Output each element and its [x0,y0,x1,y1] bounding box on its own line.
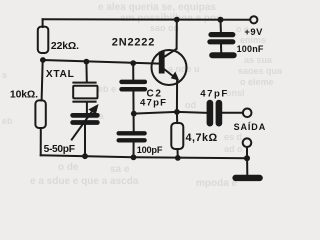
svg-text:a nde u: a nde u [168,64,200,74]
transistor Q1 2N2222 [152,49,187,85]
wire: trimmer bottom lead to ground rail [84,125,86,156]
svg-text:22kΩ.: 22kΩ. [51,41,79,52]
wire: +V top rail [43,18,251,21]
capacitor 100pF [117,131,147,142]
wire: rail to chassis ground [246,158,248,175]
svg-text:eb: eb [2,116,13,126]
svg-text:e a sdue e que a ascda: e a sdue e que a ascda [30,176,139,187]
wire: emitter lead down from transistor [176,80,178,112]
svg-text:100nF: 100nF [237,44,264,54]
capacitor 100nF (decoupling, to chassis) [207,32,235,44]
faint page bleed-through texture (decorative) [2,2,283,189]
wire: SAIDA ground terminal lead down to rail [246,147,248,158]
svg-text:5-50pF: 5-50pF [44,144,75,155]
wire: 47pF output cap to SAIDA terminal [222,112,243,114]
wire: crystal to trimmer [86,103,88,113]
chassis ground bar bottom right [232,175,262,181]
wire: 100pF bottom lead to ground rail [133,142,135,157]
crystal XTAL [72,82,97,103]
svg-text:2N2222: 2N2222 [112,36,155,48]
svg-text:100pF: 100pF [137,145,163,155]
svg-text:o de: o de [58,162,79,173]
wire: 4.7k bottom lead to ground rail [177,149,179,158]
terminal SAIDA (output) [243,109,252,118]
svg-text:as sua: as sua [244,55,273,65]
wire: crystal top lead [85,62,87,82]
svg-text:ad o: ad o [224,144,243,154]
terminal SAIDA ground side [243,138,252,147]
wire: C2 bottom to 100pF top (emitter node) [132,91,134,131]
svg-text:es d: es d [224,132,242,142]
capacitor 47pF (output coupling) [207,100,223,127]
junction node: ground rail / 100pF [131,154,137,160]
junction node: base rail / crystal [84,59,90,65]
junction node: top rail / collector [174,17,180,23]
wire: 100nF top lead from rail junction [220,20,222,32]
resistor 22k [38,27,49,53]
wire: 10k bottom lead down to ground rail [40,128,42,155]
junction node: C2-100pF emitter branch [131,111,137,117]
chassis ground bar under 100nF [209,52,237,58]
svg-text:sao on: sao on [150,23,179,33]
svg-text:SAÍDA: SAÍDA [234,122,267,132]
svg-text:+9V: +9V [244,26,263,37]
wire: base rail from 22k junction to transistor base [43,60,159,64]
svg-text:o eleme: o eleme [240,77,274,87]
wire: left column between 22k junction and 10k top [42,60,43,100]
svg-text:eb e: eb e [98,84,116,94]
svg-text:47pF: 47pF [140,98,167,109]
resistor 4.7k [171,123,183,149]
svg-text:e alea queria se, equipas: e alea queria se, equipas [98,2,216,13]
svg-text:XTAL: XTAL [46,69,75,80]
junction node: emitter column [174,109,180,115]
wire: 100nF bottom plate to ground bar [220,44,222,52]
resistor 10k [35,100,45,128]
junction node: top rail / 100nF [218,17,224,23]
trimmer capacitor 5-50pF [70,113,99,125]
junction node: base rail / 22k-10k [40,57,46,63]
junction node: ground rail / SAIDA ground [244,155,250,161]
svg-text:saoes qua: saoes qua [238,66,283,76]
svg-text:sa e: sa e [110,164,130,175]
wire: C2 top lead from base rail [132,63,134,80]
wire: emitter node branch C2/100pF to emitter column [134,112,207,114]
trimmer arrow [71,104,98,140]
junction node: base rail / C2 [130,60,136,66]
junction node: ground rail / trimmer [82,153,88,159]
junction node: ground rail / 4.7k [175,155,181,161]
wire: 4.7k top lead [176,112,178,123]
wire: 22k resistor top lead [42,19,44,27]
svg-text:47pF: 47pF [200,88,228,99]
terminal +9V [250,16,257,23]
svg-text:s: s [2,70,7,80]
svg-text:10kΩ.: 10kΩ. [10,89,38,100]
capacitor C2 47pF [119,80,147,92]
svg-text:4,7kΩ: 4,7kΩ [186,132,218,144]
wire: ground bottom rail [41,155,247,158]
svg-text:mpoda e: mpoda e [196,178,238,189]
svg-text:onsl: onsl [226,88,245,98]
wire: collector lead up to top rail [176,20,178,49]
svg-text:od: od [185,100,196,110]
